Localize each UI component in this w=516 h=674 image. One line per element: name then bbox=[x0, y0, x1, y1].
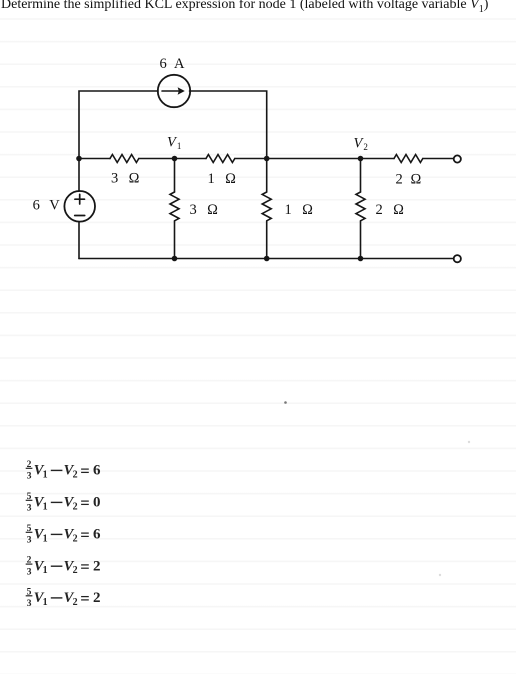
svg-text:1: 1 bbox=[43, 533, 48, 544]
svg-text:3 Ω: 3 Ω bbox=[190, 202, 222, 218]
svg-text:6: 6 bbox=[93, 527, 101, 543]
svg-text:2: 2 bbox=[73, 533, 78, 544]
svg-text:1: 1 bbox=[43, 597, 48, 608]
svg-text:1: 1 bbox=[43, 501, 48, 512]
svg-text:2 Ω: 2 Ω bbox=[396, 172, 424, 188]
svg-text:1: 1 bbox=[43, 469, 48, 480]
svg-text:2 Ω: 2 Ω bbox=[376, 202, 408, 218]
svg-text:V2: V2 bbox=[354, 136, 368, 153]
svg-text:2: 2 bbox=[93, 558, 101, 574]
svg-text:2: 2 bbox=[73, 469, 78, 480]
svg-text:6 V: 6 V bbox=[33, 198, 63, 214]
svg-text:2: 2 bbox=[73, 565, 78, 576]
svg-text:2: 2 bbox=[73, 501, 78, 512]
svg-text:0: 0 bbox=[93, 495, 101, 511]
svg-text:6: 6 bbox=[93, 463, 101, 479]
svg-text:1 Ω: 1 Ω bbox=[208, 171, 240, 187]
svg-text:2: 2 bbox=[93, 590, 101, 606]
svg-text:1 Ω: 1 Ω bbox=[285, 202, 317, 218]
svg-text:V1: V1 bbox=[167, 135, 181, 152]
svg-text:3 Ω: 3 Ω bbox=[111, 171, 143, 187]
svg-text:3: 3 bbox=[27, 567, 32, 577]
svg-text:3: 3 bbox=[27, 504, 32, 514]
svg-text:3: 3 bbox=[27, 536, 32, 546]
svg-text:3: 3 bbox=[27, 472, 32, 482]
svg-text:6 A: 6 A bbox=[160, 56, 187, 72]
svg-text:2: 2 bbox=[73, 597, 78, 608]
svg-text:3: 3 bbox=[27, 599, 32, 609]
svg-text:1: 1 bbox=[43, 565, 48, 576]
